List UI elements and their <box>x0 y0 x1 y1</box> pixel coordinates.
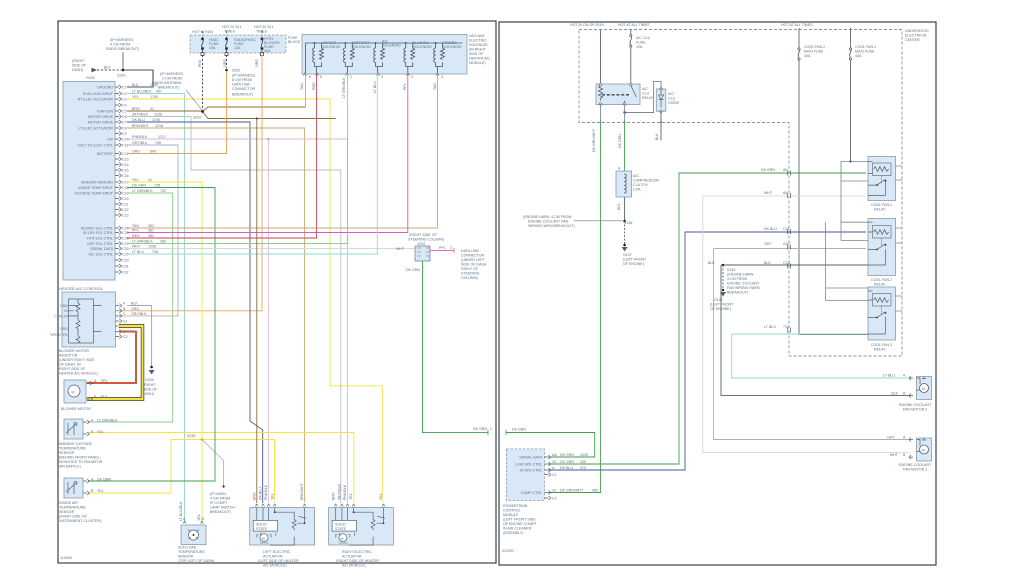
svg-text:GRY/BLK: GRY/BLK <box>132 141 148 145</box>
svg-text:1049: 1049 <box>580 453 588 457</box>
svg-text:POWERTRAIN: POWERTRAIN <box>503 504 528 508</box>
svg-text:4: 4 <box>441 75 443 79</box>
svg-text:DASH): DASH) <box>72 68 83 72</box>
svg-text:MOTOR DRIVE: MOTOR DRIVE <box>88 121 114 125</box>
svg-text:YEL: YEL <box>97 489 104 493</box>
svg-text:C23: C23 <box>122 214 129 218</box>
svg-text:BLK: BLK <box>132 83 139 87</box>
svg-text:(IP HARNESS,: (IP HARNESS, <box>160 72 184 76</box>
svg-text:CONNECTOR: CONNECTOR <box>461 254 484 258</box>
svg-text:112096: 112096 <box>60 556 72 560</box>
svg-text:(BEHIND FRONT PANEL,: (BEHIND FRONT PANEL, <box>59 456 101 460</box>
svg-text:C1: C1 <box>123 320 128 324</box>
svg-text:SIDE OF: SIDE OF <box>72 64 87 68</box>
svg-text:(IP HARNESS,: (IP HARNESS, <box>232 74 256 78</box>
svg-text:C2: C2 <box>552 496 557 500</box>
svg-text:C10: C10 <box>122 138 129 142</box>
svg-text:OF ENGINE): OF ENGINE) <box>710 307 731 311</box>
svg-text:40A: 40A <box>855 54 862 58</box>
svg-text:YEL: YEL <box>349 493 353 500</box>
svg-text:M: M <box>72 391 75 395</box>
svg-text:SUN LOAD: SUN LOAD <box>178 546 197 550</box>
svg-text:C20: C20 <box>122 197 129 201</box>
svg-text:1238: 1238 <box>154 113 162 117</box>
svg-text:MODULE: MODULE <box>503 513 519 517</box>
svg-text:PPL: PPL <box>439 246 446 250</box>
svg-text:CLU: CLU <box>668 97 676 101</box>
svg-text:SERIAL DATA: SERIAL DATA <box>519 456 542 460</box>
svg-text:ENGINE COOLANT: ENGINE COOLANT <box>727 282 760 286</box>
svg-text:A6: A6 <box>783 191 787 195</box>
svg-text:DK GRN: DK GRN <box>97 478 111 482</box>
svg-text:1790: 1790 <box>150 95 158 99</box>
svg-text:2: 2 <box>450 246 452 250</box>
svg-text:TAN: TAN <box>300 83 304 90</box>
svg-text:COIL: COIL <box>633 188 641 192</box>
svg-text:DK GRN/WHT: DK GRN/WHT <box>592 128 596 152</box>
svg-text:DK GRN: DK GRN <box>560 453 574 457</box>
svg-text:FAN WIRING HARN: FAN WIRING HARN <box>727 286 760 290</box>
svg-text:C25: C25 <box>122 231 129 235</box>
svg-text:BREAKOUT): BREAKOUT) <box>158 86 179 90</box>
svg-text:G107: G107 <box>623 253 632 257</box>
svg-text:SIDE OF DASH: SIDE OF DASH <box>461 263 487 267</box>
svg-text:367: 367 <box>148 229 154 233</box>
svg-text:LT GRN/BLK: LT GRN/BLK <box>97 419 118 423</box>
svg-text:TEMPERATURE: TEMPERATURE <box>178 550 205 554</box>
svg-text:CONNECTOR: CONNECTOR <box>232 87 255 91</box>
svg-text:DK GRN: DK GRN <box>132 184 146 188</box>
svg-text:SOLENOID: SOLENOID <box>413 45 432 49</box>
svg-text:M: M <box>341 537 344 541</box>
svg-text:RELAY: RELAY <box>642 96 654 100</box>
svg-text:OF DASH, IN: OF DASH, IN <box>59 363 81 367</box>
svg-text:BI-LEV SOL CTRL: BI-LEV SOL CTRL <box>83 231 113 235</box>
svg-text:WHT: WHT <box>396 247 405 251</box>
svg-text:MAXI FUSE: MAXI FUSE <box>804 50 824 54</box>
svg-text:C17: C17 <box>122 181 129 185</box>
svg-text:4 CM FROM: 4 CM FROM <box>210 497 230 501</box>
svg-text:A5: A5 <box>783 168 787 172</box>
svg-text:473: 473 <box>580 466 586 470</box>
svg-text:M: M <box>922 449 925 453</box>
svg-text:PNK/BLK: PNK/BLK <box>132 135 148 139</box>
svg-text:BLK: BLK <box>655 133 659 140</box>
svg-text:INSIDE TEMP INPUT: INSIDE TEMP INPUT <box>78 186 113 190</box>
svg-text:UNDERHOOD: UNDERHOOD <box>905 29 929 33</box>
svg-text:C11: C11 <box>783 227 789 231</box>
svg-text:TAN: TAN <box>433 83 437 90</box>
svg-text:BLK: BLK <box>617 203 621 210</box>
svg-text:COOL FAN 1: COOL FAN 1 <box>871 203 892 207</box>
svg-text:ORG: ORG <box>131 307 139 311</box>
svg-text:SENSOR GROUND: SENSOR GROUND <box>81 181 114 185</box>
svg-text:DASH): DASH) <box>143 392 154 396</box>
svg-text:41: 41 <box>148 178 152 182</box>
svg-text:41: 41 <box>150 107 154 111</box>
svg-text:+5V: +5V <box>107 138 114 142</box>
svg-text:BRN: BRN <box>331 492 335 500</box>
svg-text:BATTERY: BATTERY <box>97 152 114 156</box>
svg-text:A/C MODULE): A/C MODULE) <box>342 564 366 568</box>
svg-text:OF ENGINE): OF ENGINE) <box>623 262 644 266</box>
svg-text:COOL FAN 3: COOL FAN 3 <box>871 343 892 347</box>
svg-text:LEFT ELECTRIC: LEFT ELECTRIC <box>263 550 291 554</box>
svg-text:(IN RIGHT: (IN RIGHT <box>469 48 487 52</box>
svg-text:(ENGINE HARN, 4 CM FROM: (ENGINE HARN, 4 CM FROM <box>523 215 571 219</box>
svg-text:352: 352 <box>148 224 154 228</box>
svg-text:AMBIENT OUTSIDE: AMBIENT OUTSIDE <box>59 442 92 446</box>
svg-text:GROUND: GROUND <box>97 86 113 90</box>
svg-text:C13: C13 <box>783 261 790 265</box>
svg-text:756: 756 <box>155 141 161 145</box>
svg-text:10A: 10A <box>636 45 643 49</box>
svg-text:597: 597 <box>156 90 162 94</box>
svg-text:(IP HARN,: (IP HARN, <box>210 492 227 496</box>
svg-text:HOT AT ALL: HOT AT ALL <box>222 25 242 29</box>
svg-text:(LEFT FRONT: (LEFT FRONT <box>710 303 734 307</box>
svg-text:A/C MODULE): A/C MODULE) <box>263 564 287 568</box>
svg-text:BRN/WHT: BRN/WHT <box>132 124 150 128</box>
svg-text:IP COMPT: IP COMPT <box>210 501 228 505</box>
svg-text:SOLID: SOLID <box>256 523 267 527</box>
svg-text:SOLENOID: SOLENOID <box>469 43 488 47</box>
svg-text:C24: C24 <box>122 227 129 231</box>
svg-text:STATE: STATE <box>256 527 268 531</box>
svg-text:SENSOR: SENSOR <box>59 451 75 455</box>
svg-text:WHT: WHT <box>764 191 773 195</box>
svg-text:DEF SOL CTRL: DEF SOL CTRL <box>87 242 113 246</box>
svg-text:DK GRN: DK GRN <box>761 168 775 172</box>
svg-text:ORG: ORG <box>255 59 259 67</box>
svg-text:AA: AA <box>552 453 557 457</box>
svg-text:BLK: BLK <box>764 261 771 265</box>
svg-text:C31: C31 <box>122 265 129 269</box>
svg-text:ENGINE COOLANT: ENGINE COOLANT <box>899 403 932 407</box>
svg-text:STEERING: STEERING <box>461 272 480 276</box>
svg-text:INSTRUMENT CLUSTER): INSTRUMENT CLUSTER) <box>59 519 101 523</box>
svg-text:SERIAL DATA: SERIAL DATA <box>90 247 113 251</box>
svg-text:RELAY: RELAY <box>874 348 886 352</box>
svg-text:C28: C28 <box>122 247 129 251</box>
svg-text:8 CM FROM: 8 CM FROM <box>232 78 252 82</box>
svg-text:RELAY: RELAY <box>874 283 886 287</box>
svg-text:STATE: STATE <box>335 527 347 531</box>
svg-text:YEL: YEL <box>97 430 104 434</box>
svg-text:3: 3 <box>381 75 383 79</box>
svg-text:CTRL IN: CTRL IN <box>54 315 68 319</box>
svg-text:DK GRN: DK GRN <box>560 460 574 464</box>
svg-text:LT GRN/BLK: LT GRN/BLK <box>132 240 153 244</box>
svg-text:G200: G200 <box>86 76 95 80</box>
svg-text:IGNITION: IGNITION <box>97 110 113 114</box>
svg-text:10A: 10A <box>209 46 216 50</box>
svg-text:BRN: BRN <box>132 107 140 111</box>
svg-text:A/C: A/C <box>668 92 674 96</box>
svg-text:10A: 10A <box>234 46 241 50</box>
svg-text:C5: C5 <box>122 110 127 114</box>
svg-text:OUTSIDE TEMP INPUT: OUTSIDE TEMP INPUT <box>74 192 113 196</box>
svg-text:GND: GND <box>60 304 68 308</box>
svg-text:SUN LOAD INPUT: SUN LOAD INPUT <box>83 92 114 96</box>
svg-text:C11: C11 <box>122 144 128 148</box>
svg-text:TEMPERATURE: TEMPERATURE <box>59 447 86 451</box>
svg-text:BREAKOUT): BREAKOUT) <box>727 291 748 295</box>
svg-text:LT BLU: LT BLU <box>764 325 776 329</box>
svg-text:TEMPERATURE: TEMPERATURE <box>59 506 86 510</box>
svg-text:A/C: A/C <box>633 174 639 178</box>
svg-text:712: 712 <box>783 325 789 329</box>
svg-text:C8: C8 <box>122 127 127 131</box>
svg-text:COMPRESSOR: COMPRESSOR <box>633 179 659 183</box>
svg-text:2 CM FROM: 2 CM FROM <box>162 77 182 81</box>
svg-text:C12: C12 <box>122 152 129 156</box>
svg-text:S202: S202 <box>232 69 240 73</box>
svg-text:WHT: WHT <box>890 453 899 457</box>
svg-text:(RIGHT SIDE OF: (RIGHT SIDE OF <box>59 515 87 519</box>
svg-text:LAMP SWITCH: LAMP SWITCH <box>210 506 235 510</box>
svg-text:YEL: YEL <box>270 493 274 500</box>
svg-text:WHT/BLK: WHT/BLK <box>338 483 342 500</box>
svg-text:HEATER A/C CONTROL: HEATER A/C CONTROL <box>59 286 104 291</box>
svg-text:C2: C2 <box>122 92 127 96</box>
svg-text:MODULE): MODULE) <box>469 61 486 65</box>
svg-text:STEERING COLUMN): STEERING COLUMN) <box>408 238 444 242</box>
svg-text:BRN/WHT: BRN/WHT <box>300 482 304 500</box>
svg-text:(LEFT SIDE OF HEATER: (LEFT SIDE OF HEATER <box>258 559 299 563</box>
svg-text:C14: C14 <box>122 163 129 167</box>
svg-text:PNK/BLK: PNK/BLK <box>264 484 268 500</box>
svg-text:(IP HARNESS,: (IP HARNESS, <box>110 38 134 42</box>
svg-text:VACUUM: VACUUM <box>469 34 484 38</box>
svg-text:BLK: BLK <box>708 261 715 265</box>
svg-text:(RIGHT SIDE OF HEATER: (RIGHT SIDE OF HEATER <box>336 559 379 563</box>
svg-text:WIRING HARN BREAKOUT): WIRING HARN BREAKOUT) <box>528 224 575 228</box>
svg-text:MOUNTED TO RADIATOR: MOUNTED TO RADIATOR <box>59 460 103 464</box>
svg-text:C18: C18 <box>122 186 129 190</box>
svg-text:C21: C21 <box>122 203 129 207</box>
svg-text:COMP CTRL: COMP CTRL <box>521 491 542 495</box>
svg-text:ORG: ORG <box>223 59 227 67</box>
svg-text:FAN MOTOR 2: FAN MOTOR 2 <box>903 408 927 412</box>
svg-text:BLK: BLK <box>101 395 108 399</box>
svg-text:HTR SOL CTRL: HTR SOL CTRL <box>87 237 113 241</box>
svg-text:M: M <box>262 537 265 541</box>
svg-text:C13: C13 <box>122 158 129 162</box>
svg-text:1217: 1217 <box>158 135 166 139</box>
svg-text:CENTER: CENTER <box>905 38 920 42</box>
svg-text:SIDE OF: SIDE OF <box>143 388 158 392</box>
svg-text:IN AIR CLEANER: IN AIR CLEANER <box>503 527 532 531</box>
svg-text:DK BLU: DK BLU <box>764 227 777 231</box>
svg-text:(RIGHT: (RIGHT <box>72 59 85 63</box>
svg-text:SPD CTRL: SPD CTRL <box>50 333 68 337</box>
svg-text:RT ELEC ACTUATOR: RT ELEC ACTUATOR <box>78 98 114 102</box>
svg-text:335: 335 <box>580 460 586 464</box>
svg-text:C16: C16 <box>122 174 129 178</box>
svg-text:A/C SOL CTRL: A/C SOL CTRL <box>89 253 113 257</box>
svg-text:ACTUATOR: ACTUATOR <box>342 555 362 559</box>
svg-text:ELECTRIC: ELECTRIC <box>469 39 487 43</box>
svg-text:GRY/BLK: GRY/BLK <box>131 312 147 316</box>
svg-text:RELAY: RELAY <box>874 208 886 212</box>
svg-text:LT GRN/BLK: LT GRN/BLK <box>132 189 153 193</box>
svg-text:1: 1 <box>490 427 492 431</box>
svg-text:BLK: BLK <box>131 302 138 306</box>
svg-text:(UNDER RIGHT SIDE: (UNDER RIGHT SIDE <box>59 358 95 362</box>
svg-text:DK GRN: DK GRN <box>512 428 526 432</box>
svg-text:DATA LINK: DATA LINK <box>461 249 479 253</box>
svg-text:DATA LINK: DATA LINK <box>232 83 250 87</box>
svg-text:(RIGHT: (RIGHT <box>143 383 156 387</box>
svg-text:TAN: TAN <box>132 224 139 228</box>
svg-text:HOT IN ON OR RUN: HOT IN ON OR RUN <box>570 23 604 27</box>
svg-text:LT BLU: LT BLU <box>132 250 144 254</box>
svg-text:SENSOR: SENSOR <box>178 555 194 559</box>
svg-text:C: C <box>123 312 126 316</box>
svg-text:VOLT TO ELEC CTRL: VOLT TO ELEC CTRL <box>77 144 113 148</box>
svg-text:COOL FAN 1: COOL FAN 1 <box>855 45 876 49</box>
svg-text:(TOP LEFT OF DASH): (TOP LEFT OF DASH) <box>178 559 214 563</box>
svg-text:C22: C22 <box>122 208 129 212</box>
svg-text:4 CM FROM: 4 CM FROM <box>110 43 130 47</box>
svg-text:PPL: PPL <box>101 379 108 383</box>
svg-text:10: 10 <box>552 488 556 492</box>
svg-text:LT BLU/BLK: LT BLU/BLK <box>132 90 152 94</box>
svg-text:(ENGINE HARN,: (ENGINE HARN, <box>727 273 754 277</box>
svg-text:FAN MOTOR 1: FAN MOTOR 1 <box>903 468 927 472</box>
svg-text:HEATER A/C MODULE): HEATER A/C MODULE) <box>59 372 98 376</box>
svg-text:732: 732 <box>160 189 166 193</box>
svg-text:C3: C3 <box>122 98 127 102</box>
svg-text:RIGHT OF: RIGHT OF <box>461 267 479 271</box>
svg-text:459: 459 <box>592 488 598 492</box>
svg-text:362: 362 <box>148 234 154 238</box>
svg-text:C9: C9 <box>122 132 127 136</box>
svg-text:X202: X202 <box>417 242 425 246</box>
svg-text:RADIO ANTENNA: RADIO ANTENNA <box>152 81 182 85</box>
svg-text:360: 360 <box>160 240 166 244</box>
svg-text:RIGHT ELECTRIC: RIGHT ELECTRIC <box>342 550 372 554</box>
svg-text:IN: IN <box>64 309 68 313</box>
svg-text:BLOWER MOTOR: BLOWER MOTOR <box>61 407 91 411</box>
svg-text:A/C CLU: A/C CLU <box>636 36 651 40</box>
svg-text:LT ELEC ACTUATOR: LT ELEC ACTUATOR <box>79 127 114 131</box>
svg-text:C27: C27 <box>122 242 129 246</box>
svg-text:1: 1 <box>350 75 352 79</box>
svg-text:WHT/BLK: WHT/BLK <box>132 113 149 117</box>
svg-text:RED: RED <box>312 82 316 90</box>
svg-text:GRY: GRY <box>764 242 772 246</box>
svg-text:(UNDER LEFT: (UNDER LEFT <box>461 258 486 262</box>
svg-text:YEL: YEL <box>132 178 139 182</box>
svg-text:COOL FAN 2: COOL FAN 2 <box>871 278 892 282</box>
svg-text:HOT AT ALL: HOT AT ALL <box>254 25 274 29</box>
svg-text:C32: C32 <box>122 271 129 275</box>
svg-text:LT BLU: LT BLU <box>373 81 377 93</box>
svg-text:SENSOR: SENSOR <box>59 510 75 514</box>
svg-text:HOT AT ALL TIMES: HOT AT ALL TIMES <box>618 23 650 27</box>
svg-text:RECIRC SOL CTRL: RECIRC SOL CTRL <box>81 227 113 231</box>
svg-text:HI SPD CTRL: HI SPD CTRL <box>520 469 542 473</box>
svg-text:PNK: PNK <box>198 59 202 67</box>
svg-text:ASSEMBLY): ASSEMBLY) <box>503 531 523 535</box>
svg-text:BLK: BLK <box>891 392 898 396</box>
svg-text:MOTOR DRIVE: MOTOR DRIVE <box>88 115 114 119</box>
svg-text:RED: RED <box>132 234 140 238</box>
svg-text:LT GRN/BLK: LT GRN/BLK <box>342 77 346 98</box>
svg-text:LT BLU: LT BLU <box>883 374 895 378</box>
svg-text:RADIO BREAKOUT): RADIO BREAKOUT) <box>106 47 139 51</box>
svg-text:33: 33 <box>552 460 556 464</box>
svg-text:1218: 1218 <box>155 124 163 128</box>
svg-text:AIR BAFFLE): AIR BAFFLE) <box>59 465 81 469</box>
svg-text:FUSE: FUSE <box>636 41 646 45</box>
svg-text:HOT AT ALL TIMES: HOT AT ALL TIMES <box>781 23 813 27</box>
svg-text:640: 640 <box>150 150 156 154</box>
svg-text:A/C: A/C <box>642 87 648 91</box>
svg-text:YEL: YEL <box>197 514 201 521</box>
svg-text:CLUTCH: CLUTCH <box>633 183 648 187</box>
svg-text:(LEFT FRONT SIDE: (LEFT FRONT SIDE <box>503 518 536 522</box>
svg-text:RIGHT SIDE OF: RIGHT SIDE OF <box>59 367 86 371</box>
svg-text:C7: C7 <box>122 121 127 125</box>
svg-text:735: 735 <box>154 184 160 188</box>
svg-text:C15: C15 <box>122 169 129 173</box>
svg-text:DK BLU: DK BLU <box>560 466 573 470</box>
svg-text:SIDE OF: SIDE OF <box>469 52 484 56</box>
svg-text:RESISTOR: RESISTOR <box>59 354 78 358</box>
svg-text:HEATER A/C: HEATER A/C <box>469 57 491 61</box>
svg-text:LOW SPD CTRL: LOW SPD CTRL <box>515 463 542 467</box>
svg-text:C29: C29 <box>122 253 129 257</box>
svg-text:PPL: PPL <box>132 229 139 233</box>
svg-text:DK GRN: DK GRN <box>618 134 622 148</box>
svg-text:COLUMN): COLUMN) <box>461 276 478 280</box>
svg-text:DK BLU: DK BLU <box>259 487 263 500</box>
svg-text:ORG: ORG <box>60 327 68 331</box>
svg-text:M: M <box>922 387 925 391</box>
svg-text:6: 6 <box>309 75 311 79</box>
svg-text:BRN: BRN <box>252 492 256 500</box>
svg-text:BLOWER MOTOR: BLOWER MOTOR <box>59 349 89 353</box>
svg-text:CLU: CLU <box>642 92 650 96</box>
svg-text:C2: C2 <box>123 335 128 339</box>
svg-text:DK GRN: DK GRN <box>473 427 487 431</box>
svg-text:CONTROL: CONTROL <box>503 509 521 513</box>
svg-text:COOL FAN 2: COOL FAN 2 <box>804 45 825 49</box>
svg-text:PPL: PPL <box>403 83 407 90</box>
svg-text:WHT: WHT <box>132 245 141 249</box>
svg-text:1198: 1198 <box>152 118 160 122</box>
svg-text:ACTUATOR: ACTUATOR <box>263 555 283 559</box>
svg-text:C30: C30 <box>122 259 129 263</box>
svg-text:4 CM FROM: 4 CM FROM <box>727 277 747 281</box>
svg-text:412091: 412091 <box>502 549 514 553</box>
svg-text:BREAKOUT): BREAKOUT) <box>232 93 253 97</box>
svg-text:5: 5 <box>320 75 322 79</box>
svg-text:G200: G200 <box>145 378 154 382</box>
svg-text:SOLENOID: SOLENOID <box>443 45 462 49</box>
svg-text:TIMES: TIMES <box>256 30 268 34</box>
svg-text:HOT IN RUN: HOT IN RUN <box>192 30 213 34</box>
svg-text:S232: S232 <box>193 116 201 120</box>
svg-text:S149: S149 <box>727 268 735 272</box>
svg-text:S230: S230 <box>117 74 125 78</box>
svg-text:DIODE: DIODE <box>668 101 680 105</box>
svg-text:ORG: ORG <box>132 150 140 154</box>
svg-text:ELECTRICAL: ELECTRICAL <box>905 34 927 38</box>
